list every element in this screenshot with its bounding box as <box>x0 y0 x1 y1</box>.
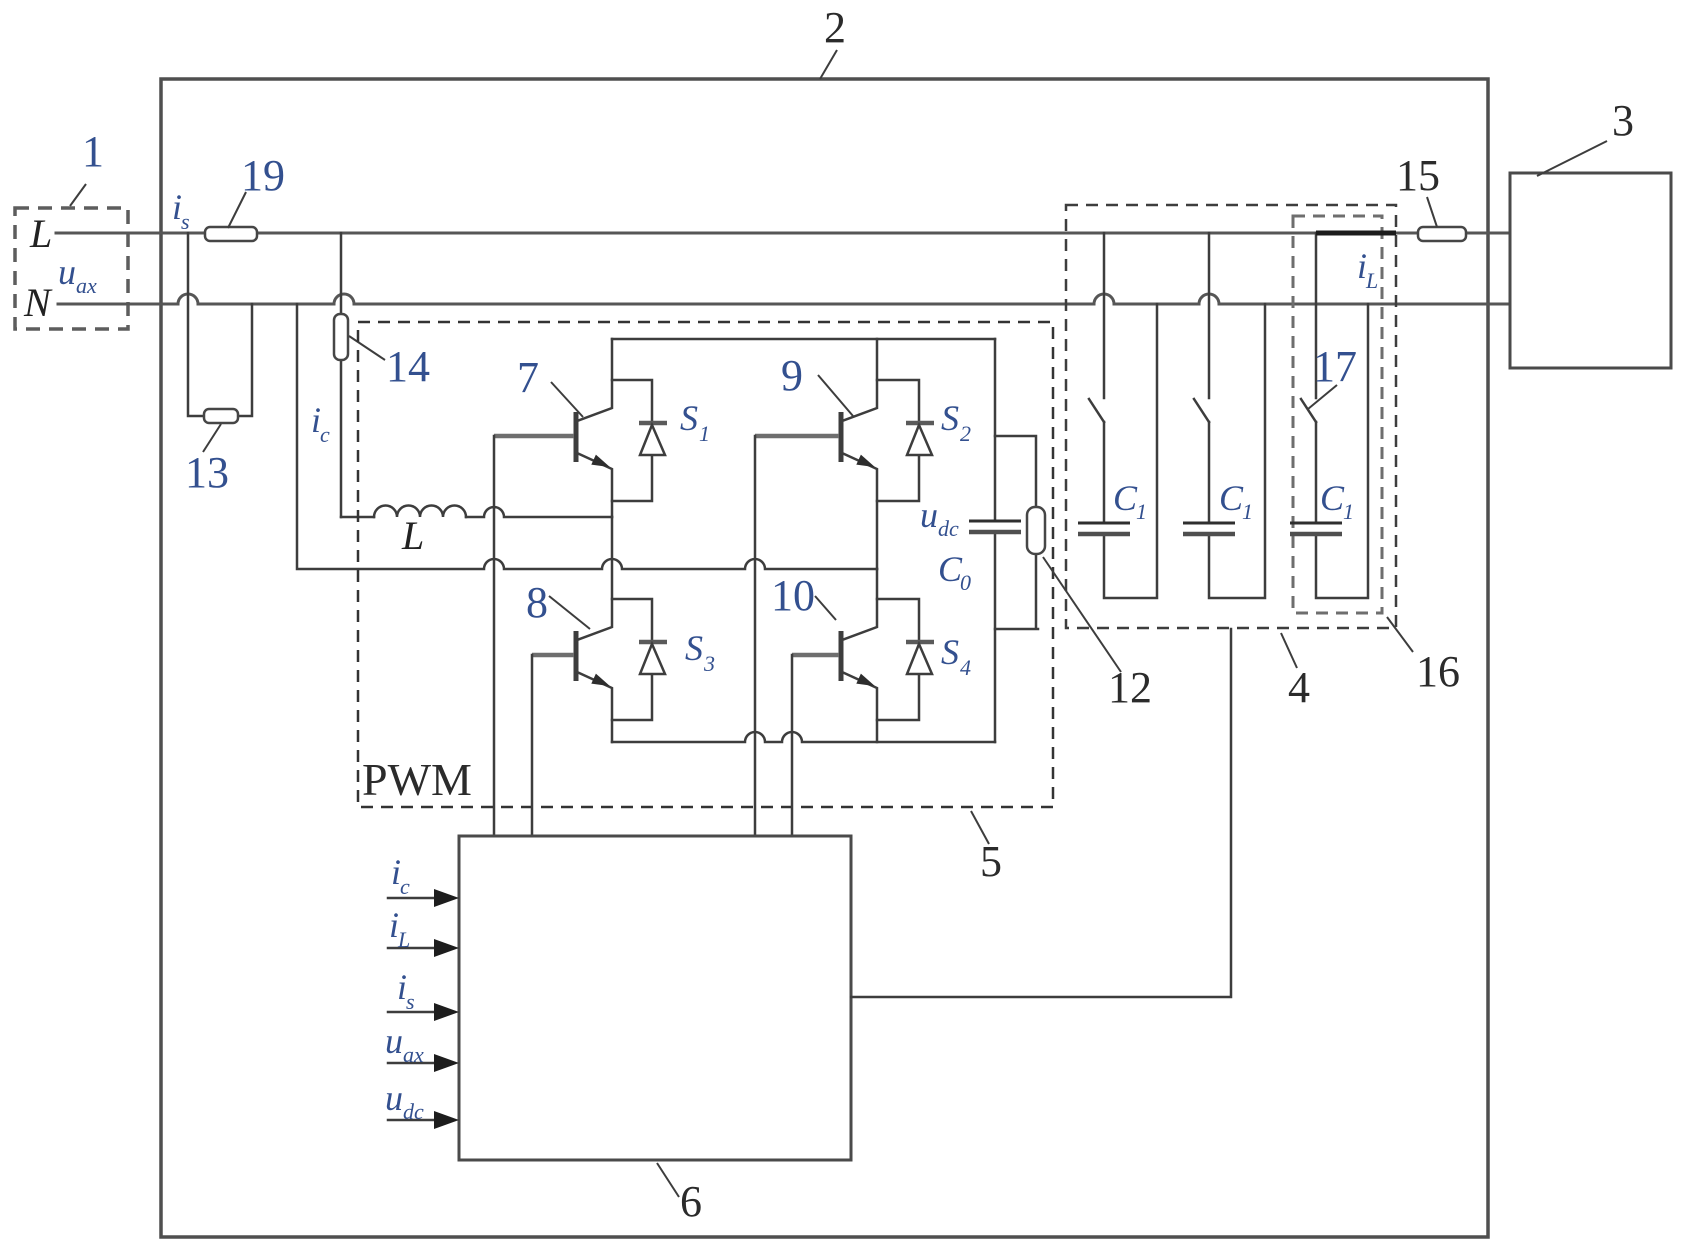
wire N line with hops <box>58 294 1510 304</box>
svg-text:12: 12 <box>1108 663 1152 712</box>
svg-text:C: C <box>1113 478 1138 518</box>
svg-text:2: 2 <box>960 421 971 446</box>
label 8 <box>526 578 590 629</box>
gate wire Q9 <box>754 436 757 836</box>
label 4 <box>1281 633 1310 712</box>
capacitor branch 2 wires <box>1209 233 1265 598</box>
input arrow u_ax <box>385 1021 459 1072</box>
svg-text:C: C <box>1320 478 1345 518</box>
svg-text:c: c <box>400 874 410 899</box>
terminal L label <box>29 211 52 256</box>
svg-text:L: L <box>397 927 410 952</box>
AC source dashed box 1 <box>15 208 128 329</box>
resistor 14 <box>334 314 348 360</box>
transistor Q8 <box>532 517 612 742</box>
transistor Q9 <box>755 339 877 569</box>
label 6 <box>657 1163 702 1226</box>
svg-text:3: 3 <box>703 651 715 676</box>
svg-text:9: 9 <box>781 351 803 400</box>
label PWM <box>362 754 472 805</box>
svg-text:0: 0 <box>960 570 971 595</box>
label C0 <box>938 549 971 595</box>
svg-text:15: 15 <box>1396 151 1440 200</box>
svg-text:4: 4 <box>960 655 971 680</box>
wire sensor branch 13 left <box>188 233 252 416</box>
svg-text:S: S <box>941 632 959 672</box>
svg-text:2: 2 <box>824 3 846 52</box>
svg-text:u: u <box>920 495 938 535</box>
svg-text:8: 8 <box>526 578 548 627</box>
svg-text:1: 1 <box>1242 499 1253 524</box>
terminal N label <box>23 280 53 325</box>
switch branch 1 <box>1089 399 1104 422</box>
label 19 <box>228 151 285 228</box>
svg-text:5: 5 <box>980 837 1002 886</box>
capacitor branch 3 wires <box>1316 233 1368 598</box>
input arrow u_dc <box>385 1078 459 1129</box>
svg-text:ax: ax <box>403 1042 424 1067</box>
label 15 <box>1396 151 1440 227</box>
svg-text:16: 16 <box>1416 647 1460 696</box>
switch 17 branch 3 <box>1301 399 1316 422</box>
label 2 <box>820 3 846 79</box>
svg-text:u: u <box>385 1021 403 1061</box>
label 10 <box>771 571 836 620</box>
capacitor C1 branch 3 <box>1290 478 1354 534</box>
resistor 19 <box>205 227 257 241</box>
label S1 <box>680 398 710 446</box>
svg-text:13: 13 <box>185 448 229 497</box>
svg-text:14: 14 <box>386 342 430 391</box>
svg-text:1: 1 <box>699 421 710 446</box>
label u_dc <box>920 495 959 541</box>
svg-text:1: 1 <box>1343 499 1354 524</box>
wire N to bridge right leg <box>297 304 877 569</box>
label i_c <box>311 400 330 447</box>
label i_L load current <box>1357 246 1378 293</box>
voltage sensor 12 <box>995 436 1045 629</box>
gate wire Q10 <box>791 655 794 836</box>
capacitor bank dashed box 4 <box>1066 205 1396 628</box>
svg-text:c: c <box>320 422 330 447</box>
switch branch 2 <box>1194 399 1209 422</box>
svg-text:S: S <box>685 628 703 668</box>
svg-text:1: 1 <box>1136 499 1147 524</box>
capacitor C0 <box>969 521 1021 532</box>
svg-text:N: N <box>23 280 53 325</box>
label 9 <box>781 351 853 416</box>
label 3 <box>1537 96 1634 176</box>
label 12 <box>1043 557 1152 712</box>
input arrow i_c <box>388 852 459 907</box>
svg-text:s: s <box>181 209 190 234</box>
svg-text:S: S <box>680 398 698 438</box>
svg-text:4: 4 <box>1288 663 1310 712</box>
bold wire segment in box 16 <box>1316 231 1396 236</box>
capacitor branch 1 wires <box>1104 233 1157 598</box>
label L inductor <box>401 513 424 558</box>
input arrow i_L <box>388 905 459 957</box>
label S2 <box>941 398 971 446</box>
input arrow i_s <box>388 967 459 1021</box>
svg-text:L: L <box>401 513 424 558</box>
svg-text:S: S <box>941 398 959 438</box>
label S3 <box>685 628 715 676</box>
svg-text:3: 3 <box>1612 96 1634 145</box>
svg-text:6: 6 <box>680 1177 702 1226</box>
label 5 <box>971 811 1002 886</box>
svg-text:dc: dc <box>403 1099 424 1124</box>
control bus wire to capacitor bank <box>851 629 1231 997</box>
bridge bottom rail with hops <box>612 732 995 742</box>
label i_s <box>172 187 190 234</box>
svg-text:1: 1 <box>82 127 104 176</box>
diode S3 <box>612 599 667 720</box>
source voltage u_ax label <box>58 252 97 298</box>
label 13 <box>185 424 229 497</box>
wire compensator current branch <box>340 233 343 517</box>
svg-text:u: u <box>58 252 76 292</box>
bridge top rail <box>612 338 995 341</box>
svg-text:L: L <box>29 211 52 256</box>
svg-text:19: 19 <box>241 151 285 200</box>
label 17 <box>1308 342 1357 409</box>
PWM converter dashed box 5 <box>358 322 1053 807</box>
svg-text:s: s <box>406 989 415 1014</box>
detection unit dashed box 16 <box>1293 216 1382 613</box>
resistor 15 <box>1418 227 1466 241</box>
svg-text:u: u <box>385 1078 403 1118</box>
gate wire Q7 <box>493 436 496 836</box>
controller box 6 <box>459 836 851 1160</box>
label 7 <box>517 353 583 417</box>
enclosure box 2 <box>161 79 1488 1237</box>
diode S2 <box>877 380 934 501</box>
bridge right dc rail <box>994 339 997 742</box>
svg-text:17: 17 <box>1313 342 1357 391</box>
svg-text:ax: ax <box>76 273 97 298</box>
diode S4 <box>877 599 934 720</box>
label 14 <box>349 336 430 391</box>
gate wire Q8 <box>531 655 534 836</box>
svg-text:PWM: PWM <box>362 754 472 805</box>
svg-text:7: 7 <box>517 353 539 402</box>
load box 3 <box>1510 173 1671 368</box>
label 1 <box>70 127 104 206</box>
resistor 13 <box>204 409 238 423</box>
transistor Q7 <box>494 339 612 517</box>
inductor L <box>341 506 612 517</box>
capacitor C1 branch 2 <box>1183 478 1253 534</box>
capacitor C1 branch 1 <box>1078 478 1147 534</box>
wire L line <box>56 232 1510 235</box>
svg-text:dc: dc <box>938 516 959 541</box>
svg-text:L: L <box>1365 268 1378 293</box>
diode S1 <box>612 380 667 501</box>
label S4 <box>941 632 971 680</box>
transistor Q10 <box>792 569 877 742</box>
svg-text:10: 10 <box>771 571 815 620</box>
label 16 <box>1387 617 1460 696</box>
svg-text:C: C <box>1219 478 1244 518</box>
